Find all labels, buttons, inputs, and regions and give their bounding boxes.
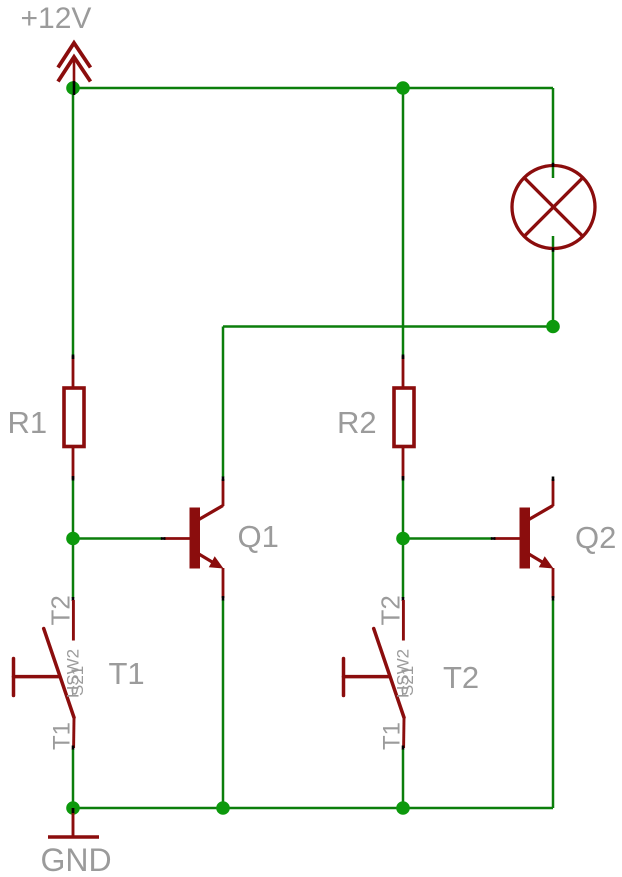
svg-text:R1: R1: [8, 405, 48, 440]
node: junction dot Q1 base: [66, 532, 80, 546]
power symbol +12V: [58, 43, 91, 95]
ground symbol GND: [48, 808, 99, 837]
wire: middle horizontal (lamp net to Q1 collector): [223, 325, 553, 328]
node: junction dot bottom T2: [396, 801, 410, 815]
wire: middle rail from top dot to R2: [402, 88, 405, 356]
svg-text:T2: T2: [46, 595, 76, 625]
resistor R1: [64, 355, 84, 481]
wire: +12V top rail: [73, 87, 553, 90]
node: junction dot top-left (+12V): [66, 81, 80, 95]
transistor Q2: [491, 477, 554, 601]
svg-text:R2: R2: [337, 405, 377, 440]
lamp LP1: [512, 163, 595, 252]
svg-text:S21: S21: [68, 666, 87, 696]
resistor R2: [394, 355, 414, 481]
node: junction dot top-middle: [396, 81, 410, 95]
svg-text:T1: T1: [109, 656, 145, 691]
wire: GND bottom rail: [73, 807, 553, 810]
svg-text:GND: GND: [41, 842, 112, 877]
wire: Q1 emitter to bottom rail: [222, 600, 225, 808]
wire: Q2 emitter to bottom rail: [552, 600, 555, 808]
wire: T2 bottom to bottom rail: [402, 749, 405, 808]
wire: R1 bottom to T1 top (base node): [72, 479, 75, 598]
wire: T1 bottom to bottom rail: [72, 749, 75, 808]
svg-text:S21: S21: [398, 666, 417, 696]
wire: Q2 base wire: [403, 537, 492, 540]
svg-text:T1: T1: [379, 722, 406, 750]
node: junction dot bottom Q1 emitter: [216, 801, 230, 815]
svg-text:T1: T1: [49, 722, 76, 750]
switch T2: [344, 597, 405, 750]
wire: right drop from top rail to lamp: [552, 88, 555, 178]
transistor Q1: [161, 477, 224, 601]
wire: Q1 collector riser: [222, 327, 225, 478]
wire: R2 bottom to T2 top (base node): [402, 479, 405, 598]
wire: lamp bottom to mid node: [552, 236, 555, 327]
node: junction dot bottom-left GND: [66, 801, 80, 815]
svg-text:+12V: +12V: [21, 2, 92, 35]
svg-text:T2: T2: [443, 660, 479, 695]
wire: Q1 base wire: [73, 537, 162, 540]
node: junction dot lamp net right: [546, 320, 560, 334]
svg-text:Q1: Q1: [238, 519, 279, 554]
svg-text:Q2: Q2: [575, 520, 616, 555]
node: junction dot Q2 base: [396, 532, 410, 546]
switch T1: [14, 597, 75, 750]
wire: left rail from top dot to R1: [72, 88, 75, 356]
svg-text:T2: T2: [376, 595, 406, 625]
